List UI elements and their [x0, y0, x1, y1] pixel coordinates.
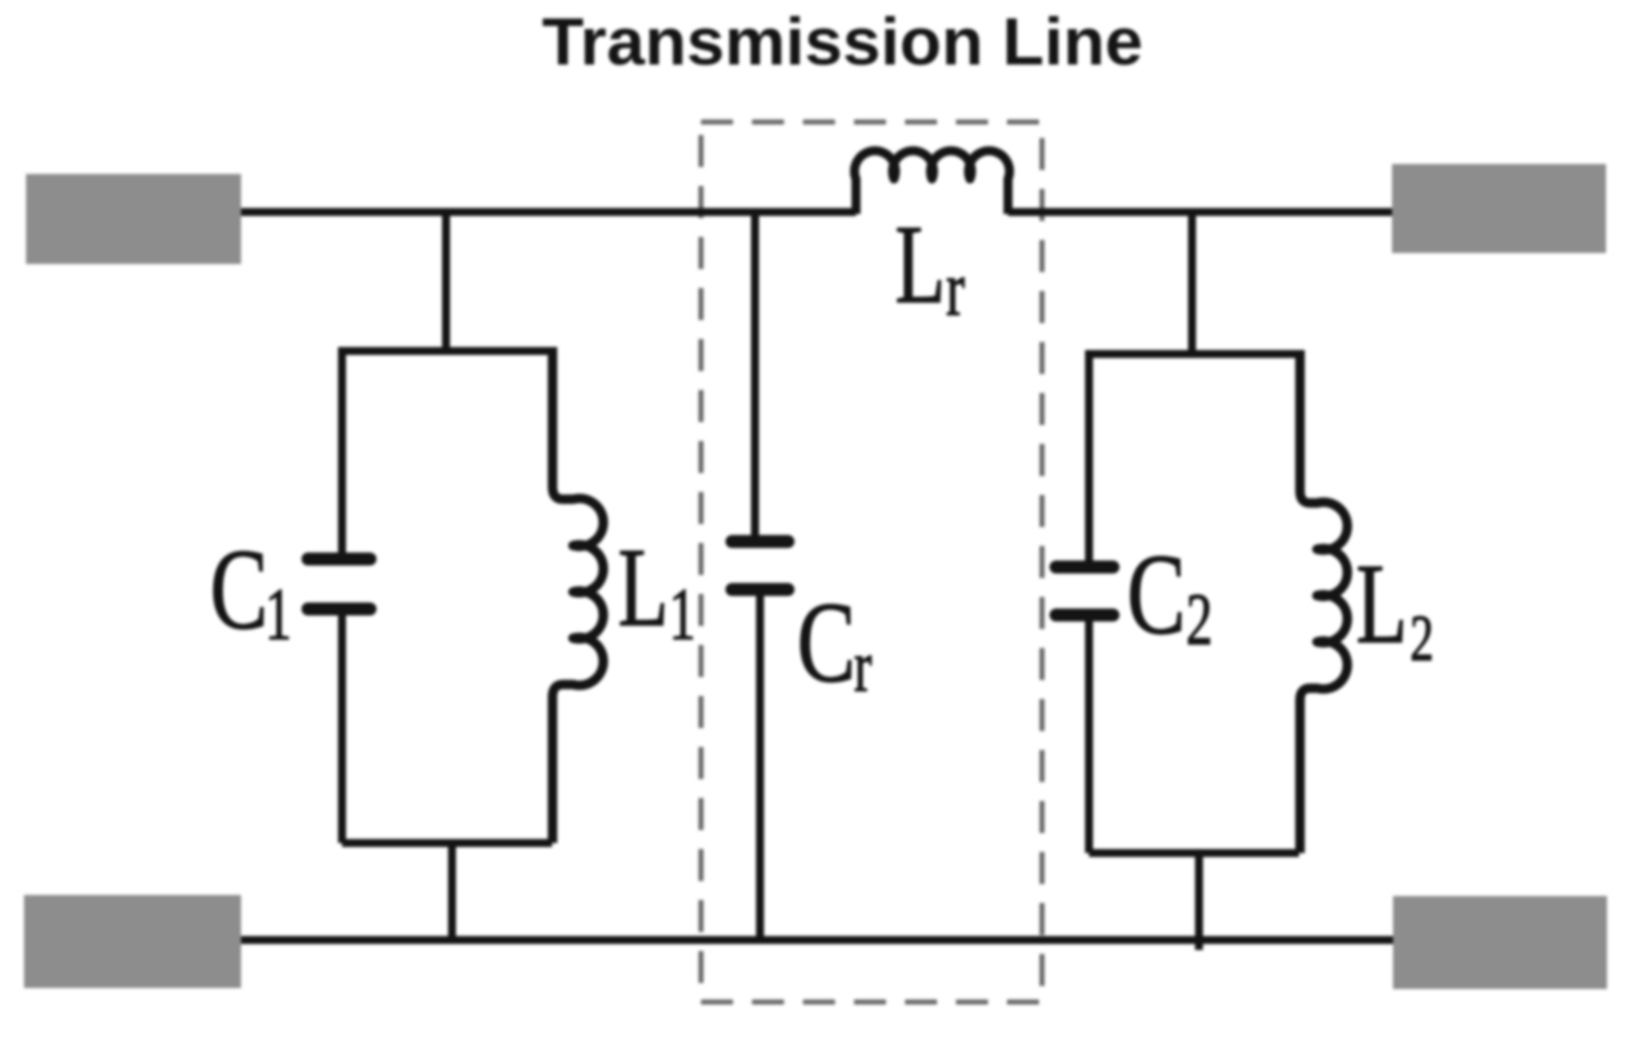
svg-text:L: L [618, 526, 669, 650]
svg-text:C: C [1127, 531, 1186, 659]
wire: top drop to left tank [442, 212, 450, 351]
wire: right tank bottom to rail [1195, 852, 1203, 950]
capacitor C1 plates [308, 553, 370, 566]
port terminal top-right [1392, 164, 1606, 253]
inductor Lr (series, top rail) [855, 151, 1010, 214]
label C1 [210, 526, 268, 654]
inductor L1 (right side of left tank) [553, 347, 604, 843]
svg-text:2: 2 [1186, 579, 1213, 660]
dashed box: transmission line section [701, 122, 1042, 1002]
svg-text:r: r [946, 245, 965, 332]
svg-text:C: C [797, 579, 856, 707]
wire: top drop to right tank [1188, 212, 1196, 354]
svg-text:L: L [895, 203, 946, 327]
wire: top rail right segment [1008, 208, 1392, 216]
capacitor Cr plates [732, 535, 788, 548]
wire: top drop to Cr [751, 212, 759, 537]
svg-text:r: r [854, 626, 872, 707]
label Cr [797, 579, 856, 707]
port terminal top-left [26, 174, 241, 264]
svg-text:2: 2 [1410, 603, 1434, 675]
svg-text:L: L [1356, 541, 1408, 667]
label C2 [1127, 531, 1186, 659]
wire: top rail left segment [241, 208, 856, 216]
right tank loop wiring (rect with gaps for C2 and L2) [1089, 350, 1299, 853]
left tank loop wiring (rect with gaps for C1 and L1) [342, 347, 552, 843]
label L1 [618, 526, 669, 650]
wire: left tank bottom to rail [448, 842, 456, 940]
port terminal bottom-right [1393, 896, 1607, 989]
svg-text:1: 1 [669, 574, 696, 655]
svg-text:Transmission Line: Transmission Line [542, 5, 1143, 80]
svg-text:C: C [210, 526, 268, 654]
port terminal bottom-left [24, 895, 241, 988]
wire: bottom rail [241, 936, 1393, 944]
svg-text:1: 1 [265, 574, 292, 655]
label Lr [895, 203, 946, 327]
capacitor C2 plates [1056, 561, 1113, 574]
wire: Cr bottom to rail [756, 592, 764, 940]
inductor L2 (right side of right tank) [1300, 350, 1347, 853]
label L2 [1356, 541, 1408, 667]
